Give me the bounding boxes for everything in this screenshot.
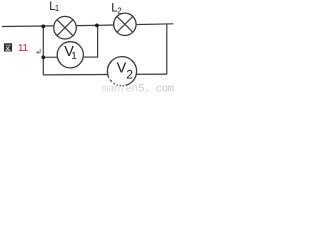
svg-text:V: V — [117, 60, 127, 76]
node C junction dot (V1 left) — [41, 55, 45, 59]
svg-text:1: 1 — [22, 42, 28, 54]
wire: right rail vertical — [166, 24, 168, 74]
figure caption 图 glyph (drawn) — [4, 43, 12, 51]
svg-text:2: 2 — [126, 68, 133, 82]
watermark letter breaks over V2 bottom arc — [109, 77, 126, 87]
voltmeter V1 — [57, 42, 83, 68]
paragraph return mark — [36, 49, 41, 54]
label L2 — [111, 2, 122, 15]
node B junction dot (top left) — [41, 25, 45, 29]
watermark manfen5.com — [102, 84, 174, 96]
wire: left branch vertical from node A down to bottom rail — [42, 26, 44, 75]
svg-text:1: 1 — [55, 4, 60, 13]
node A junction dot (top middle) — [95, 24, 99, 28]
wire: V1 feed from node C to the right, up to node B (passes under V1) — [43, 25, 97, 57]
lamp L2 — [114, 13, 136, 35]
lamp L1 — [54, 16, 77, 39]
svg-text:1: 1 — [71, 51, 77, 62]
svg-text:5. com: 5. com — [138, 84, 174, 93]
wire: top rail from left edge through lamps to top-right — [2, 24, 173, 27]
svg-text:2: 2 — [117, 6, 122, 15]
label L1 — [49, 1, 60, 13]
voltmeter V2 — [107, 57, 136, 86]
figure caption number 11 (red) — [18, 42, 28, 54]
wire: bottom rail from left branch to right rail (passes under V2) — [43, 73, 167, 76]
